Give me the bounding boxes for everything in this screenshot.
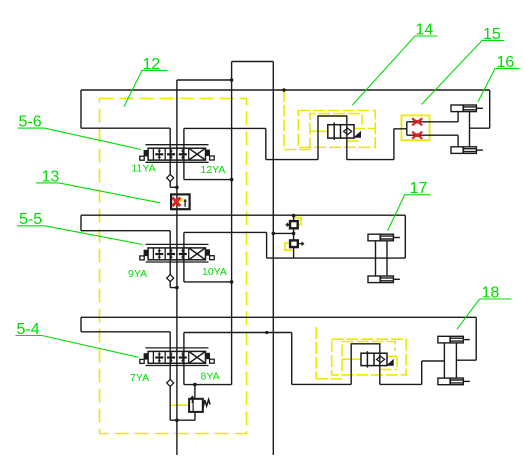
wire band1 bus left drop — [81, 90, 170, 128]
wire throttle lower to cylinder 16 — [407, 134, 458, 136]
wire tank return line T — [176, 80, 178, 455]
svg-text:13: 13 — [42, 168, 60, 185]
node: yellow wedge in valve 13 — [178, 198, 183, 202]
wire valve 5-6 port P — [169, 128, 171, 162]
label leader 5-6 — [18, 128, 141, 149]
wire valve 5-5 port P — [169, 231, 171, 262]
pilot operated check valve 14 — [328, 123, 361, 140]
wire yellow stub valve 18 right — [381, 356, 397, 369]
wire band2 bus top — [81, 214, 405, 216]
wire valve 5-6 port B drop — [184, 162, 232, 179]
wire band1 right feed to cylinder 16 — [470, 90, 490, 128]
wire valve 5-4 port A line — [184, 333, 292, 366]
valve 5-4 (7YA/8YA) — [140, 348, 214, 366]
valve 5-5 (9YA/10YA) — [140, 244, 214, 262]
wire valve 5-6 port A line — [184, 128, 266, 162]
node junction A3 crossing — [265, 331, 268, 334]
node junction link at riser — [292, 232, 296, 236]
check valve diamond below 5-4 — [167, 379, 174, 386]
node: throttle group 15 enclosure (yellow box) — [401, 115, 429, 140]
node: manifold block (central tall box) — [232, 62, 274, 456]
wire cylinder 17 ports — [376, 241, 388, 277]
svg-text:9YA: 9YA — [128, 268, 147, 280]
relief valve (M) below 5-4 — [189, 395, 210, 412]
label leader 5-5 — [17, 226, 143, 245]
svg-text:5-6: 5-6 — [19, 114, 42, 131]
label leader 14 — [352, 36, 437, 105]
node junction check to tank 5-5 — [175, 286, 179, 290]
wire band1 pressure bus top — [81, 89, 490, 91]
wire yellow stub valve 14 right — [354, 128, 375, 130]
valve 5-6 (11YA/12YA) — [140, 145, 214, 163]
component 13 red cross — [172, 197, 180, 206]
wire valve 5-5 port B drop — [184, 262, 232, 282]
svg-text:10YA: 10YA — [202, 266, 227, 278]
wire cylinder 16 ports — [458, 112, 469, 147]
node: yellow enclosure around valve 18 (outer) — [332, 339, 406, 375]
pilot operated check valve 18 — [361, 351, 393, 367]
node junction yellow riser — [282, 88, 286, 92]
svg-text:5-4: 5-4 — [17, 321, 40, 338]
label leader 12 — [124, 70, 168, 106]
svg-text:7YA: 7YA — [130, 372, 149, 384]
svg-text:12YA: 12YA — [201, 164, 226, 176]
node: yellow hook at pilot check lower (17 circuit) — [285, 243, 292, 250]
node: yellow enclosure around valve 18 (inner) — [342, 342, 395, 372]
node: yellow hook at pilot check upper (17 circuit) — [295, 218, 302, 225]
wire valve 18 outlet — [380, 361, 445, 384]
wire valve 5-5 port A line — [184, 232, 267, 262]
wire A1 path to valve 14 — [266, 128, 318, 159]
component 13 throttle box — [171, 194, 190, 209]
node junction check to tank 5-6 — [175, 186, 179, 190]
throttle red cross upper (15) — [412, 118, 422, 125]
check valve diamond below 5-5 — [167, 275, 174, 282]
wire manifold link to pilot checks — [273, 232, 293, 234]
component check valve below 5-6 stem — [170, 162, 177, 187]
node junction B1 at manifold — [230, 178, 234, 182]
label leader 13 — [36, 183, 160, 203]
wire valve 5-4 port P — [169, 332, 171, 366]
label leader 5-4 — [16, 336, 139, 358]
svg-text:14: 14 — [416, 22, 434, 39]
wire band3 right feed to cylinder 18 — [456, 317, 476, 360]
wire yellow stub at relief valve — [172, 404, 190, 406]
cylinder 16 — [451, 105, 483, 153]
wire yellow approach to valve 18 enclosure — [316, 327, 342, 379]
pilot check upper (17 circuit) — [286, 221, 298, 228]
wire cylinder 18 ports — [444, 343, 456, 379]
component check valve below 5-5 stem — [170, 262, 177, 288]
node: throttle pair bracket — [406, 122, 408, 135]
node junction B2 at manifold — [230, 280, 234, 284]
svg-text:18: 18 — [482, 284, 500, 301]
wire tank line top link — [177, 79, 232, 81]
svg-text:12: 12 — [143, 56, 161, 73]
wire relief valve tap — [194, 385, 196, 421]
wire yellow stub valve 14 bottom — [348, 140, 361, 142]
node junction relief tap — [193, 383, 197, 387]
wire pilot check riser — [293, 215, 295, 258]
wire yellow stub into valve 14 left — [310, 130, 328, 132]
component check valve below 5-4 stem — [170, 366, 195, 421]
wire valve 14 outlet — [347, 129, 407, 160]
check valve diamond below 5-6 — [167, 174, 174, 181]
svg-text:17: 17 — [410, 180, 428, 197]
wire A2 path to cylinder 17 — [267, 232, 406, 258]
node junction tank/manifold — [230, 78, 234, 82]
wire yellow stub into valve 18 left — [342, 358, 361, 360]
node: yellow enclosure around valve 14 (outer) — [298, 111, 375, 148]
wire band3 bus top — [81, 316, 476, 318]
node junction tank at relief return — [175, 418, 179, 422]
svg-text:16: 16 — [497, 54, 515, 71]
node: valve 14 frame — [318, 116, 347, 160]
svg-text:5-5: 5-5 — [19, 211, 42, 228]
node junction link at manifold — [272, 232, 276, 236]
node junction riser at band2 top — [292, 214, 296, 218]
throttle red cross lower (15) — [412, 132, 422, 139]
wire yellow riser to band1 bus — [284, 90, 310, 150]
label leader 17 — [388, 195, 431, 231]
cylinder 18 — [438, 336, 470, 384]
label leader 15 — [422, 41, 505, 105]
wire A3 path to valve 18 — [292, 333, 352, 385]
svg-text:11YA: 11YA — [132, 163, 156, 175]
svg-text:8YA: 8YA — [201, 371, 220, 383]
wire valve 5-4 port B drop — [184, 366, 232, 385]
node: valve 18 frame — [351, 344, 380, 385]
wire throttle upper to cylinder 16 — [407, 121, 458, 123]
label leader 18 — [457, 299, 512, 329]
cylinder 17 — [368, 234, 400, 282]
svg-text:15: 15 — [483, 26, 501, 43]
wire band2 bus left drop — [81, 215, 170, 231]
node: yellow enclosure around valve 14 (inner) — [310, 114, 362, 150]
wire band2 right edge — [404, 215, 406, 258]
wire band3 bus left drop — [81, 317, 170, 332]
pilot check lower (17 circuit) — [290, 240, 304, 247]
node: subsystem boundary (yellow dashed box) — [100, 98, 247, 433]
label leader 16 — [478, 69, 520, 102]
